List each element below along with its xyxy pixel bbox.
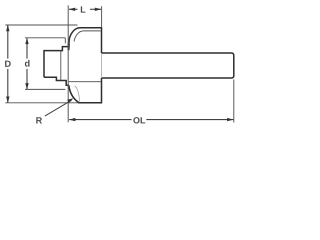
label d bbox=[25, 60, 30, 67]
dimension OL line left segment bbox=[69, 119, 131, 121]
dimension d line lower bbox=[26, 69, 28, 89]
dimension d top extension line bbox=[25, 37, 65, 39]
shank bbox=[102, 53, 234, 78]
dimension d line upper bbox=[26, 38, 28, 58]
label OL bbox=[133, 117, 145, 123]
dimension d arrow up bbox=[25, 38, 28, 45]
hub body divider edge bbox=[60, 51, 62, 81]
carbide braze inner curve bottom bbox=[75, 86, 80, 102]
cutter head bottom profile outline bbox=[44, 77, 69, 85]
carbide front vertical bar bbox=[68, 43, 70, 51]
label D bbox=[5, 61, 11, 67]
dimension OL right extension line bbox=[233, 80, 235, 123]
head right face faint middle segment bbox=[101, 53, 103, 78]
dimension L arrow left bbox=[69, 8, 76, 11]
dimension L line left segment bbox=[69, 8, 78, 10]
R leader line bbox=[45, 100, 72, 116]
dimension L left extension line (shared with OL) bbox=[67, 5, 69, 122]
dimension D arrow up bbox=[6, 25, 9, 32]
flute inner line bbox=[74, 31, 101, 42]
dimension D bottom extension line bbox=[5, 102, 78, 104]
flute root line bbox=[69, 81, 101, 83]
dimension d bottom extension line bbox=[25, 88, 65, 90]
head bottom edge and right face lower bbox=[78, 78, 102, 103]
dimension D top extension line bbox=[5, 24, 77, 26]
dimension OL line right segment bbox=[146, 119, 233, 121]
label L bbox=[81, 6, 86, 12]
dimension OL arrow left bbox=[69, 118, 76, 121]
carbide tip back edge tick bbox=[64, 38, 66, 44]
dimension D arrow down bbox=[6, 97, 9, 104]
dimension L right extension line bbox=[101, 6, 103, 27]
cutter head top profile outline bbox=[44, 28, 102, 77]
label R bbox=[36, 117, 42, 123]
dimension d arrow down bbox=[25, 83, 28, 90]
dimension D line upper bbox=[7, 25, 9, 58]
dimension L line right segment bbox=[90, 8, 101, 10]
carbide outer cutting curve bottom bbox=[69, 85, 79, 102]
dimension OL arrow right bbox=[227, 118, 234, 121]
dimension D line lower bbox=[7, 69, 9, 103]
R leader arrowhead bbox=[67, 98, 73, 103]
dimension L arrow right bbox=[95, 8, 102, 11]
